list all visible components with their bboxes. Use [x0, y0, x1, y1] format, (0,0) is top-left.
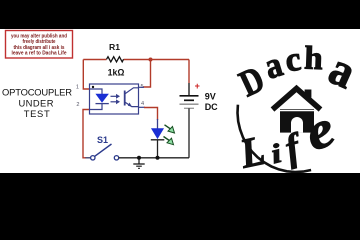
opto LED D1: [96, 94, 108, 102]
wire left rail to pin1: [83, 60, 89, 90]
switch S1 lever: [95, 144, 112, 156]
svg-text:TEST: TEST: [24, 108, 50, 119]
note box: [6, 31, 73, 59]
transistor Q1 base bar: [124, 91, 126, 106]
pin 1 marker dot: [92, 86, 94, 88]
svg-text:2: 2: [76, 102, 79, 108]
svg-text:4: 4: [141, 101, 144, 107]
svg-text:h: h: [304, 41, 324, 78]
switch S1 left terminal: [91, 156, 95, 160]
LED D2 cathode lead: [157, 140, 159, 158]
wire junction to pin5: [143, 60, 151, 88]
logo house gap line: [280, 110, 314, 112]
svg-text:OPTOCOUPLER: OPTOCOUPLER: [2, 87, 72, 98]
svg-text:leave a ref to Dacha Life: leave a ref to Dacha Life: [12, 51, 67, 57]
LED D2 cathode bar: [151, 139, 165, 141]
opto LED cathode lead: [90, 104, 103, 110]
opto light arrow upper: [111, 95, 117, 97]
battery BT1 plate 4: [184, 107, 194, 109]
svg-text:S1: S1: [97, 135, 108, 145]
svg-text:+: +: [195, 81, 200, 91]
node ground junction: [137, 156, 141, 160]
logo house roof: [273, 89, 321, 110]
wire stub to switch terminal: [86, 157, 91, 159]
switch S1 right terminal: [114, 156, 118, 160]
battery BT1 bottom lead wire: [188, 108, 190, 158]
LED D2 anode lead: [157, 119, 159, 129]
bottom letterbox bar: [0, 173, 360, 202]
pin 4 stub: [139, 106, 146, 108]
logo arc swoosh: [238, 105, 312, 172]
wire pin4 to LED: [144, 108, 158, 121]
wire top rail: [83, 59, 189, 61]
svg-text:1: 1: [76, 85, 79, 91]
battery BT1 plate 1: [180, 95, 199, 97]
logo house chimney: [305, 90, 312, 98]
pin 5 stub: [139, 86, 145, 88]
white schematic background: [0, 29, 360, 173]
node LED junction: [156, 156, 160, 160]
opto LED cathode bar: [96, 103, 109, 105]
logo house door: [291, 117, 303, 133]
svg-text:UNDER: UNDER: [19, 97, 54, 108]
resistor R1: [107, 57, 124, 62]
battery BT1 top lead: [188, 83, 190, 95]
wire pin2 to switch: [83, 110, 90, 158]
node junction after R1: [149, 58, 153, 62]
wire bottom rail: [119, 157, 189, 159]
wire battery positive: [188, 60, 190, 84]
top letterbox bar: [0, 0, 360, 29]
LED light arrow lower: [164, 137, 170, 141]
battery BT1 plate 2: [184, 99, 194, 101]
svg-text:DC: DC: [205, 102, 218, 112]
op-amp U1 optocoupler box: [90, 84, 139, 114]
logo house body: [280, 109, 314, 132]
transistor Q1 emitter: [125, 102, 139, 107]
battery BT1 plate 3: [180, 103, 199, 105]
transistor Q1 collector: [125, 88, 139, 94]
transistor Q1 emitter arrow: [128, 103, 132, 107]
opto light arrow lower: [111, 101, 117, 103]
LED light arrow upper: [165, 125, 171, 129]
svg-text:R1: R1: [109, 42, 120, 52]
opto LED anode lead: [90, 89, 103, 94]
svg-text:9V: 9V: [205, 92, 216, 102]
ground: [133, 158, 144, 169]
svg-text:1kΩ: 1kΩ: [108, 67, 125, 77]
LED D2: [152, 129, 164, 139]
